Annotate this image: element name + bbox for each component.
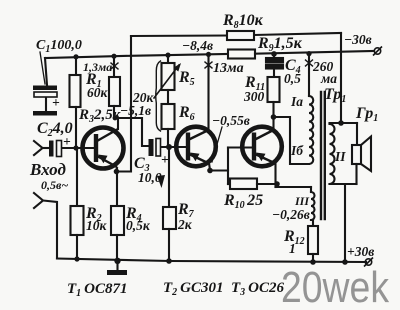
node R7 bottom — [166, 258, 172, 264]
node T1 emitter — [114, 169, 120, 175]
capacitor C3 plate hollow — [156, 139, 161, 157]
wire T1 collector node to C3 — [114, 118, 149, 146]
node C4 top — [271, 51, 277, 57]
wire R10 right lead — [257, 183, 277, 185]
capacitor C4 plate A — [266, 58, 283, 62]
brace for 20k across R5-R6 — [156, 61, 161, 131]
svg-text:0,5к: 0,5к — [126, 218, 151, 233]
svg-text:+: + — [161, 152, 169, 167]
node output return bottom — [342, 259, 348, 265]
resistor R8 — [227, 31, 254, 40]
node R4 bottom ground — [114, 258, 120, 264]
svg-text:С1100,0: С1100,0 — [36, 38, 82, 55]
svg-text:+: + — [52, 95, 60, 110]
wire T1 collector stub — [117, 118, 119, 129]
chassis bar below C1 — [33, 111, 57, 116]
svg-text:ма: ма — [320, 71, 337, 86]
coil winding II — [330, 124, 335, 184]
terminal +30v — [364, 258, 373, 267]
svg-text:Т3ОС26: Т3ОС26 — [231, 280, 285, 298]
measure cross on primary feed — [306, 60, 313, 66]
svg-text:Т1ОС871: Т1ОС871 — [67, 281, 128, 299]
svg-text:−0,55в: −0,55в — [212, 113, 250, 128]
wire R9 to -30v terminal — [255, 51, 374, 54]
wire T2 collector — [207, 54, 209, 130]
wire speaker loop top — [330, 122, 358, 124]
resistor R5 — [162, 63, 175, 90]
wire T2 emitter stub — [209, 163, 210, 170]
leader line -0,55v — [212, 127, 222, 162]
wire input to T1 base — [61, 147, 94, 149]
svg-text:Вход: Вход — [29, 160, 66, 179]
wire output return to ground rail — [344, 184, 346, 262]
wire lower input to ground rail — [43, 201, 57, 259]
capacitor C4 plate B — [266, 65, 283, 69]
svg-text:−5,1в: −5,1в — [120, 103, 151, 118]
speaker Gr1 box — [352, 145, 361, 164]
wire R1 bottom pin — [75, 107, 77, 148]
transformer core — [320, 92, 322, 219]
wire ground rail bottom — [57, 259, 366, 263]
svg-text:R32,5к: R32,5к — [78, 107, 121, 125]
capacitor C1 plate solid — [33, 86, 57, 91]
wire primary feed vertical — [308, 54, 310, 96]
transistor T3 — [242, 127, 282, 167]
wire R7 top pin — [168, 147, 170, 207]
wire chevron to C2 — [43, 147, 50, 149]
capacitor C3 plate solid — [149, 139, 154, 156]
svg-text:Iа: Iа — [290, 94, 303, 109]
svg-text:13ма: 13ма — [213, 61, 244, 76]
wire R6 bottom pin — [167, 129, 169, 147]
wire R2 bottom pin — [76, 235, 78, 259]
arrowhead C3 polarity — [157, 175, 165, 188]
resistor R3 — [109, 77, 120, 106]
coil winding III — [310, 187, 312, 192]
measure cross on R3 pin — [111, 63, 118, 69]
wire R2 top pin — [76, 148, 78, 206]
svg-text:+: + — [63, 134, 71, 149]
wire speaker right vertical — [356, 123, 358, 145]
node T2 base — [166, 144, 172, 150]
wire C1 bottom stub — [45, 97, 47, 111]
wire R12 bottom pin — [312, 254, 314, 262]
svg-text:20wek: 20wek — [281, 263, 390, 310]
wire speaker bottom pin — [355, 164, 357, 184]
svg-text:−8,4в: −8,4в — [182, 38, 213, 53]
node R3 top — [111, 54, 116, 59]
wire R3 top pin — [113, 56, 115, 77]
wire input chevron lower — [34, 193, 43, 208]
node T3 collector R11 — [271, 114, 277, 120]
svg-text:−0,26в: −0,26в — [272, 207, 310, 222]
wire ground stub — [116, 261, 118, 270]
measure cross on T2 collector — [205, 62, 212, 68]
svg-text:III: III — [294, 194, 310, 208]
wire top feedback rail left — [131, 34, 227, 37]
wire -30v rail — [45, 54, 228, 58]
wire T3 emitter to winding III — [276, 186, 312, 188]
node T1 base — [73, 145, 78, 150]
node R12 bottom — [310, 259, 316, 265]
wire III to R12 — [311, 220, 313, 226]
wire T3 collector stub — [272, 117, 274, 130]
resistor R10 — [230, 179, 257, 190]
wire R11 bottom pin — [272, 102, 274, 117]
svg-text:0,5: 0,5 — [284, 71, 301, 86]
capacitor C1 plate hollow — [34, 92, 57, 97]
wire C4 top stub — [273, 54, 275, 58]
svg-text:10,0: 10,0 — [138, 170, 162, 185]
svg-text:10к: 10к — [86, 218, 108, 233]
svg-text:−30в: −30в — [344, 32, 372, 47]
node T2 emitter — [207, 168, 213, 174]
arrowhead R5 — [174, 63, 182, 72]
wire top feedback rail right — [254, 33, 341, 35]
speaker Gr1 horn — [361, 137, 371, 172]
svg-text:+30в: +30в — [347, 244, 374, 259]
svg-text:0,5в~: 0,5в~ — [41, 178, 68, 192]
svg-text:300: 300 — [243, 89, 265, 104]
wire speaker loop bottom — [330, 183, 357, 185]
wire R4 top pin — [116, 172, 118, 206]
wire input chevron upper — [34, 141, 43, 155]
resistor R12 — [308, 226, 318, 254]
transistor T1 — [83, 128, 124, 172]
resistor R7 — [163, 207, 176, 229]
wire C4 to R11 — [273, 69, 275, 78]
node T2 collector top — [206, 52, 211, 57]
node speaker top tap — [338, 120, 344, 126]
wire collector node to winding Ib bottom — [274, 117, 310, 164]
wire T3 emitter vertical — [274, 163, 276, 187]
svg-text:Т2GC301: Т2GC301 — [163, 280, 224, 298]
terminal -30v — [373, 47, 382, 56]
capacitor C2 plate solid — [49, 141, 54, 157]
node T1 collector — [113, 116, 118, 121]
wire R10 left lead — [228, 183, 230, 185]
node R2 bottom — [74, 256, 79, 261]
resistor R6 — [162, 104, 175, 129]
wire feedback tap vertical — [340, 33, 342, 123]
node T3 emitter R10 — [274, 181, 280, 187]
wire R7 bottom pin — [168, 229, 170, 261]
resistor R9 — [228, 50, 255, 59]
wire T2 emitter to T3 base column — [210, 169, 228, 171]
wire R3 bottom pin — [113, 106, 115, 118]
wire R4 bottom pin — [116, 235, 118, 261]
node R1 top — [73, 54, 78, 59]
node R5 top — [165, 53, 170, 58]
node primary feed — [306, 51, 311, 56]
wire feedback vertical down to T1 emitter — [117, 36, 132, 172]
wire T3 base column vertical — [227, 148, 229, 185]
wire R5 arrow — [154, 65, 179, 98]
wire T3 base horizontal — [228, 146, 251, 148]
svg-text:60к: 60к — [87, 85, 109, 100]
svg-text:R810к: R810к — [222, 12, 264, 31]
transistor T2 — [176, 127, 216, 167]
svg-text:Iб: Iб — [290, 143, 304, 158]
ground symbol — [107, 270, 127, 275]
wire R5 top pin — [167, 55, 169, 63]
wire R1 top pin — [75, 57, 77, 75]
svg-text:R91,5к: R91,5к — [257, 35, 303, 54]
svg-text:II: II — [334, 149, 346, 164]
capacitor C2 plate hollow — [57, 141, 62, 157]
coil winding Ia-Ib — [309, 96, 313, 164]
wire R5-R6 link — [167, 90, 169, 104]
resistor R1 — [70, 75, 81, 107]
svg-text:2к: 2к — [177, 217, 193, 232]
svg-text:1: 1 — [289, 241, 296, 256]
wire C1 top lead — [45, 58, 47, 85]
resistor R11 — [268, 77, 280, 102]
leader line C1 label — [40, 52, 45, 84]
resistor R4 — [111, 206, 124, 235]
resistor R2 — [71, 206, 84, 235]
wire C3 out to T2 base — [161, 146, 187, 148]
